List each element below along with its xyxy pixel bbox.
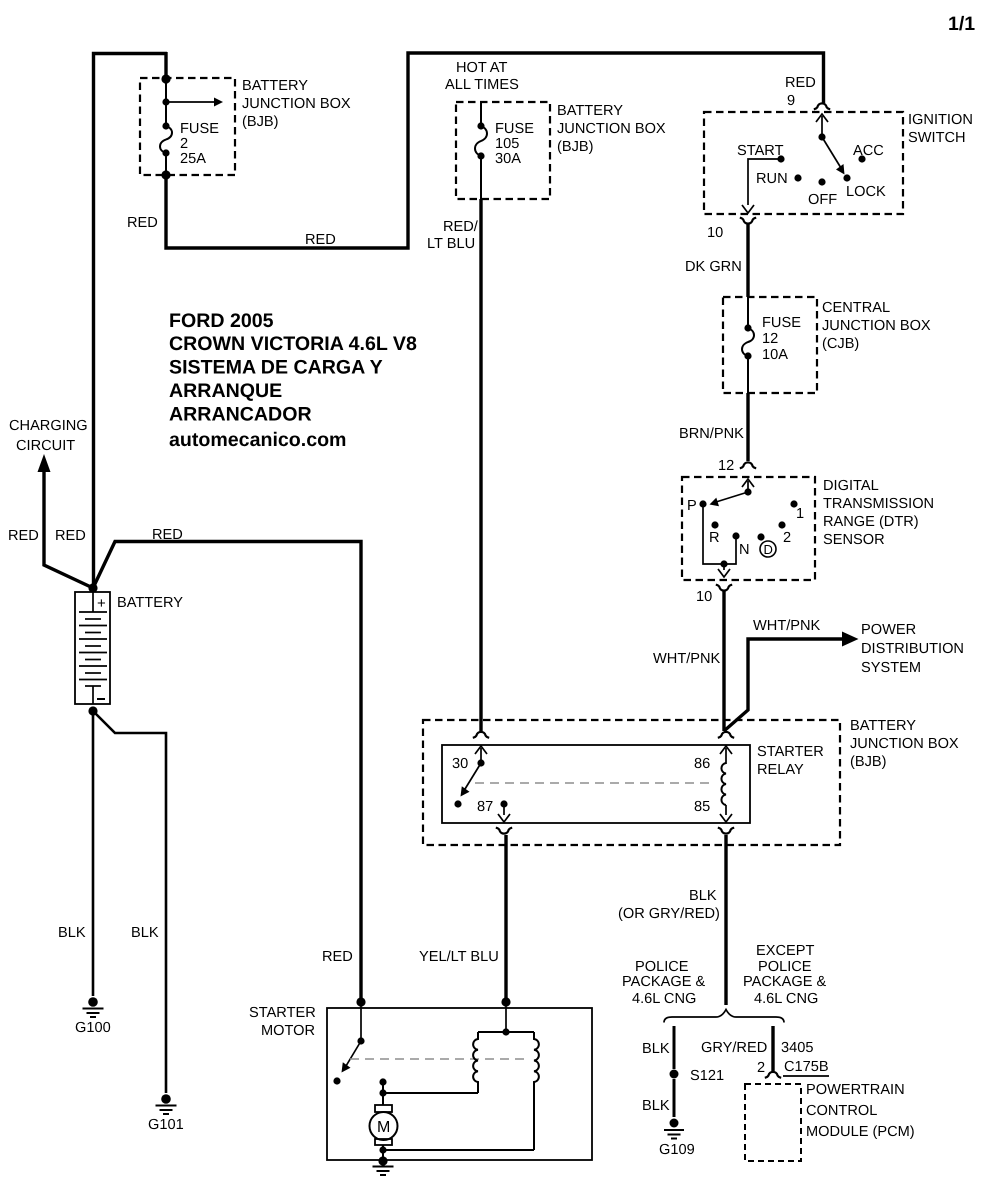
connector arc pin 12 [740, 462, 756, 468]
arrow to power distribution system [842, 632, 859, 647]
svg-text:RED: RED [127, 215, 158, 231]
node: DTR output junction [720, 560, 727, 567]
wire: fuse2 internal bottom [165, 153, 167, 175]
svg-text:(BJB): (BJB) [557, 139, 593, 155]
svg-text:STARTER: STARTER [249, 1005, 316, 1021]
arrow: feed to other circuits inside BJB [166, 101, 214, 103]
svg-text:RED/: RED/ [443, 219, 479, 235]
svg-text:SYSTEM: SYSTEM [861, 660, 921, 676]
svg-text:D: D [764, 542, 773, 557]
pin 87 chevron arrow down [503, 804, 505, 815]
svg-text:POLICE: POLICE [635, 959, 689, 975]
svg-text:MOTOR: MOTOR [261, 1023, 315, 1039]
svg-text:R: R [709, 530, 720, 546]
wire: drop into fuse2 box [164, 52, 167, 79]
svg-text:BRN/PNK: BRN/PNK [679, 426, 744, 442]
svg-text:HOT AT: HOT AT [456, 60, 507, 76]
node [379, 1078, 386, 1085]
digital transmission range (DTR) sensor dashed box [682, 477, 815, 580]
node 1 dot [790, 500, 797, 507]
node P [699, 500, 706, 507]
svg-text:12: 12 [762, 331, 778, 347]
relay blade [465, 763, 481, 789]
svg-text:MODULE (PCM): MODULE (PCM) [806, 1124, 915, 1140]
svg-text:IGNITION: IGNITION [908, 112, 973, 128]
wire: BLK relay 85 down to split [724, 835, 727, 1005]
wire: BLK battery branch to G101 [93, 711, 166, 1093]
wire: BLK battery to G100 [92, 711, 95, 996]
svg-text:4.6L CNG: 4.6L CNG [632, 991, 696, 1007]
svg-text:+: + [97, 595, 106, 612]
wire: coil top bar [478, 1031, 534, 1033]
solenoid actuation dashed link [350, 1058, 530, 1060]
battery internal plates [92, 592, 94, 612]
node pin30 [477, 759, 484, 766]
svg-text:BLK: BLK [689, 888, 717, 904]
wire: motor to ground [382, 1145, 384, 1161]
node splice S121 [670, 1070, 679, 1079]
svg-text:SISTEMA DE CARGA Y: SISTEMA DE CARGA Y [169, 357, 383, 379]
svg-text:LOCK: LOCK [846, 184, 886, 200]
svg-text:S121: S121 [690, 1068, 724, 1084]
central junction box (CJB) dashed box [723, 297, 817, 393]
battery junction box (BJB) fuse105 dashed box [456, 102, 550, 199]
wire: winding to motor [383, 1092, 478, 1094]
pin 85 chevron arrow down [725, 805, 727, 815]
pin 86 chevron arrow up [720, 746, 732, 754]
node OFF [818, 178, 825, 185]
pin 9 chevron arrow up [816, 114, 828, 122]
wire: fuse2 internal top [165, 79, 167, 126]
svg-text:RED: RED [55, 528, 86, 544]
node relay contact [454, 800, 461, 807]
svg-text:M: M [377, 1119, 390, 1136]
connector arc DTR pin 10 [716, 585, 732, 591]
fuse F2 squiggle [160, 126, 172, 153]
svg-text:JUNCTION BOX: JUNCTION BOX [242, 96, 351, 112]
node starter ground [378, 1156, 387, 1165]
connector arc relay pin 86 [718, 732, 734, 738]
svg-text:JUNCTION BOX: JUNCTION BOX [822, 318, 931, 334]
svg-text:G100: G100 [75, 1020, 111, 1036]
wire: WHT/PNK branch to power distribution [724, 639, 843, 731]
svg-text:9: 9 [787, 93, 795, 109]
svg-text:BATTERY: BATTERY [117, 595, 183, 611]
solenoid pull-in winding [473, 1032, 478, 1093]
connector arc pin 9 [814, 103, 830, 109]
svg-text:25A: 25A [180, 151, 206, 167]
node: YEL wire at starter [501, 997, 510, 1006]
svg-text:CONTROL: CONTROL [806, 1103, 877, 1119]
svg-text:RANGE (DTR): RANGE (DTR) [823, 514, 919, 530]
ground starter motor [373, 1166, 394, 1168]
wire: BRN/PNK CJB to DTR [746, 393, 749, 461]
wire: START contact to pin 10 [748, 159, 781, 205]
svg-text:P: P [687, 498, 697, 514]
svg-text:BLK: BLK [131, 925, 159, 941]
svg-text:G101: G101 [148, 1117, 184, 1133]
label minus [97, 698, 105, 700]
pin 10 chevron arrow down [742, 205, 754, 213]
wire: fuse105 internal bottom [480, 156, 482, 199]
svg-text:POLICE: POLICE [758, 959, 812, 975]
svg-text:PACKAGE &: PACKAGE & [622, 974, 706, 990]
node [379, 1089, 386, 1096]
svg-text:ALL TIMES: ALL TIMES [445, 77, 519, 93]
svg-text:BLK: BLK [642, 1098, 670, 1114]
pin 30 chevron arrow up [475, 746, 487, 754]
svg-text:DK GRN: DK GRN [685, 259, 742, 275]
node R [711, 521, 718, 528]
svg-text:(CJB): (CJB) [822, 336, 859, 352]
motor M1 brush top [375, 1105, 392, 1112]
svg-text:2: 2 [757, 1060, 765, 1076]
svg-text:JUNCTION BOX: JUNCTION BOX [557, 121, 666, 137]
battery junction box (BJB) fuse2 dashed box [140, 78, 235, 175]
ignition switch blade to LOCK [822, 137, 841, 168]
svg-text:SWITCH: SWITCH [908, 130, 966, 146]
wire: hold-in winding return [383, 1149, 534, 1151]
svg-text:2: 2 [783, 530, 791, 546]
node RUN [794, 174, 801, 181]
svg-text:ARRANCADOR: ARRANCADOR [169, 404, 312, 426]
node: fuse105 dots [477, 122, 484, 129]
svg-text:OFF: OFF [808, 192, 837, 208]
wire: RED/LT BLU drop to starter relay pin30 [479, 199, 482, 731]
node [357, 1037, 364, 1044]
wire: fuse2 out, RED run to x408, up and across top to ignition [166, 53, 824, 248]
svg-text:(OR GRY/RED): (OR GRY/RED) [618, 906, 720, 922]
svg-text:EXCEPT: EXCEPT [756, 943, 814, 959]
wire: solenoid coil feed [505, 1002, 507, 1032]
split brace [664, 1010, 784, 1023]
fuse F12 squiggle [742, 328, 754, 356]
svg-text:BATTERY: BATTERY [850, 718, 916, 734]
svg-text:12: 12 [718, 458, 734, 474]
arrow to charging circuit [38, 454, 51, 472]
solenoid hold-in winding [534, 1032, 539, 1150]
relay actuation dashed link [475, 782, 712, 784]
connector arc pin 10 [740, 218, 756, 224]
svg-text:86: 86 [694, 756, 710, 772]
svg-text:CIRCUIT: CIRCUIT [16, 438, 75, 454]
svg-text:FORD 2005: FORD 2005 [169, 310, 274, 332]
motor M1 brush bottom [375, 1139, 392, 1145]
svg-text:BATTERY: BATTERY [242, 78, 308, 94]
svg-text:RED: RED [8, 528, 39, 544]
node: fuse12 dots [744, 324, 751, 331]
wire: YEL/LT BLU relay 87 to starter [504, 835, 507, 1002]
svg-text:(BJB): (BJB) [242, 114, 278, 130]
connector arc relay pin 87 [496, 828, 512, 834]
connector arc relay pin 30 [473, 732, 489, 738]
wire: CJB internal top [747, 297, 749, 328]
svg-text:TRANSMISSION: TRANSMISSION [823, 496, 934, 512]
node D dot [757, 533, 764, 540]
node battery negative [88, 706, 97, 715]
svg-text:GRY/RED: GRY/RED [701, 1040, 767, 1056]
ground G100 [88, 997, 98, 1007]
svg-text:JUNCTION BOX: JUNCTION BOX [850, 736, 959, 752]
svg-text:N: N [739, 542, 750, 558]
svg-text:BATTERY: BATTERY [557, 103, 623, 119]
starter motor solid box [327, 1008, 592, 1160]
svg-text:10: 10 [696, 589, 712, 605]
svg-text:BLK: BLK [642, 1041, 670, 1057]
relay coil [721, 763, 726, 805]
svg-text:POWER: POWER [861, 622, 916, 638]
connector arc C175B [765, 1072, 781, 1078]
svg-text:(BJB): (BJB) [850, 754, 886, 770]
wire: BLK S121 to G109 [673, 1079, 676, 1117]
svg-text:CROWN VICTORIA 4.6L V8: CROWN VICTORIA 4.6L V8 [169, 333, 417, 355]
wire: DK GRN ignition to CJB [746, 224, 749, 297]
wire: P to N to output [703, 504, 736, 564]
node solenoid contact [333, 1077, 340, 1084]
DTR pin12 chevron arrow up [742, 479, 754, 487]
connector arc relay pin 85 [718, 828, 734, 834]
svg-text:START: START [737, 143, 784, 159]
node ACC [858, 155, 865, 162]
svg-text:1/1: 1/1 [948, 13, 975, 35]
svg-text:FUSE: FUSE [762, 315, 801, 331]
ground G101 [161, 1094, 171, 1104]
svg-text:85: 85 [694, 799, 710, 815]
svg-text:ARRANQUE: ARRANQUE [169, 380, 282, 402]
battery junction box (BJB) relay dashed box [423, 720, 840, 845]
svg-text:POWERTRAIN: POWERTRAIN [806, 1082, 905, 1098]
node 2 dot [778, 521, 785, 528]
svg-text:2: 2 [180, 136, 188, 152]
svg-text:10: 10 [707, 225, 723, 241]
svg-text:G109: G109 [659, 1142, 695, 1158]
starter relay solid box [442, 745, 750, 823]
DTR selector blade to P [716, 492, 748, 502]
node battery positive [88, 583, 97, 592]
svg-text:DIGITAL: DIGITAL [823, 478, 879, 494]
node START [777, 155, 784, 162]
node coil junction [502, 1028, 509, 1035]
node: BJB feed junction dots on fuse2 wire [161, 74, 170, 83]
node N [732, 532, 739, 539]
node LOCK [843, 174, 850, 181]
node [379, 1146, 386, 1153]
svg-text:30A: 30A [495, 151, 521, 167]
svg-text:WHT/PNK: WHT/PNK [653, 651, 721, 667]
wire: RED battery to starter motor [93, 542, 361, 1003]
svg-text:CENTRAL: CENTRAL [822, 300, 890, 316]
node: ignition common dot [818, 133, 825, 140]
DTR output chevron arrow down [723, 564, 725, 570]
powertrain control module (PCM) dashed box [745, 1084, 801, 1161]
svg-text:10A: 10A [762, 347, 788, 363]
svg-text:RELAY: RELAY [757, 762, 804, 778]
svg-text:RED: RED [322, 949, 353, 965]
motor M1 body [370, 1112, 398, 1140]
solenoid switch blade [346, 1041, 361, 1066]
node: RED wire at starter [356, 997, 365, 1006]
ignition switch dashed box [704, 112, 903, 214]
wire: stub to motor [382, 1082, 384, 1105]
wire: WHT/PNK DTR to relay pin 86 [722, 591, 725, 731]
svg-text:C175B: C175B [784, 1059, 829, 1075]
node pin 87 [500, 800, 507, 807]
svg-text:DISTRIBUTION: DISTRIBUTION [861, 641, 964, 657]
svg-text:105: 105 [495, 136, 519, 152]
svg-text:YEL/LT BLU: YEL/LT BLU [419, 949, 499, 965]
svg-text:RED: RED [305, 232, 336, 248]
wire: main feed top-left corner to battery [94, 54, 168, 589]
svg-text:FUSE: FUSE [180, 121, 219, 137]
svg-text:4.6L CNG: 4.6L CNG [754, 991, 818, 1007]
circled D [760, 541, 776, 557]
svg-text:30: 30 [452, 756, 468, 772]
svg-text:FUSE: FUSE [495, 121, 534, 137]
wire: fuse105 internal top [480, 102, 482, 126]
svg-text:WHT/PNK: WHT/PNK [753, 618, 821, 634]
svg-text:3405: 3405 [781, 1040, 813, 1056]
svg-text:RED: RED [785, 75, 816, 91]
svg-text:CHARGING: CHARGING [9, 418, 88, 434]
wire: GRY/RED to PCM [771, 1026, 774, 1071]
wire: solenoid switch feed [360, 1002, 362, 1041]
svg-text:PACKAGE &: PACKAGE & [743, 974, 827, 990]
fuse F105 squiggle [475, 126, 487, 156]
svg-text:SENSOR: SENSOR [823, 532, 885, 548]
svg-text:87: 87 [477, 799, 493, 815]
svg-text:1: 1 [796, 506, 804, 522]
wire: BLK to S121 [673, 1026, 676, 1069]
svg-text:BLK: BLK [58, 925, 86, 941]
node: DTR common dot [744, 488, 751, 495]
svg-text:ACC: ACC [853, 143, 884, 159]
ground G109 [670, 1119, 679, 1128]
battery case [75, 592, 110, 704]
svg-text:LT BLU: LT BLU [427, 236, 475, 252]
wire: CJB internal bottom [747, 356, 749, 393]
svg-text:RUN: RUN [756, 171, 788, 187]
svg-text:automecanico.com: automecanico.com [169, 429, 346, 451]
svg-text:STARTER: STARTER [757, 744, 824, 760]
